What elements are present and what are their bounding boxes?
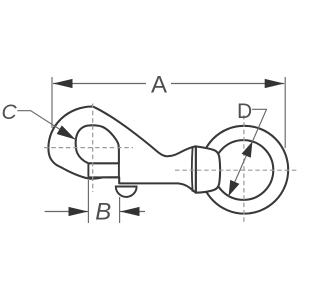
hook inner opening [76, 125, 119, 163]
swivel barrel [196, 146, 220, 192]
dim B line left segment [45, 211, 88, 213]
barrel flange outer line [191, 147, 194, 192]
dim B arrow left [69, 207, 89, 216]
dim D arrow upper [242, 142, 253, 158]
leader C [17, 111, 75, 140]
dim B line right segment [120, 211, 145, 213]
dim A extension line left [51, 77, 53, 128]
centerline hook horizontal [44, 147, 133, 149]
svg-text:A: A [151, 72, 167, 99]
dim B extension line left [87, 180, 89, 223]
dim A line left segment [53, 83, 146, 85]
eye ring outer circle [200, 126, 288, 214]
svg-text:C: C [1, 101, 17, 124]
centerline eye horizontal [175, 169, 298, 171]
dim A extension line right [284, 77, 286, 148]
leader D [229, 109, 267, 196]
hook tip step left edge [87, 163, 89, 177]
dim B arrow right [120, 207, 140, 216]
dim D arrow lower [229, 180, 240, 196]
centerline hook vertical [92, 104, 94, 193]
dim A arrow right [265, 79, 285, 88]
leader C arrowhead [57, 125, 76, 139]
hook body [48, 106, 195, 192]
gate right vertical [118, 163, 120, 177]
dim A line right segment [171, 83, 284, 85]
svg-text:D: D [237, 100, 252, 123]
svg-text:B: B [95, 199, 111, 226]
gate knob [116, 187, 137, 197]
knob chord [116, 186, 137, 188]
dim B extension line right [119, 197, 121, 223]
dim A arrow left [53, 79, 73, 88]
hook tip step bottom [88, 176, 119, 178]
eye ring inner circle [214, 140, 274, 200]
centerline eye vertical [243, 115, 245, 223]
